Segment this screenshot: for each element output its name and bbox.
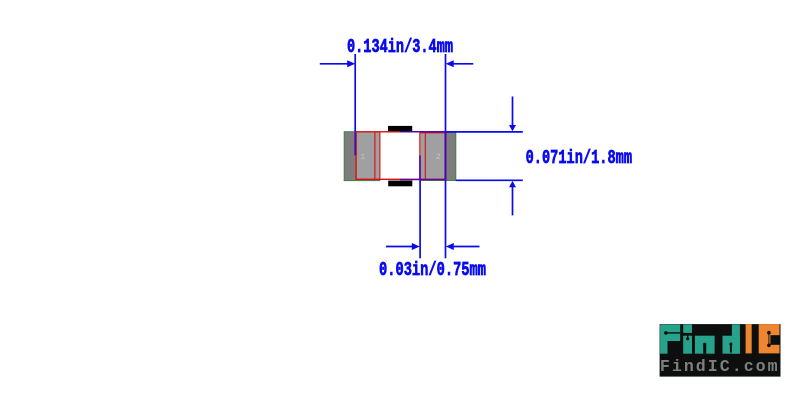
- polarity bar bottom (black): [388, 181, 412, 187]
- pad 2 inner paste area: [420, 132, 446, 180]
- pad 2 mask outline top edge (green): [446, 131, 456, 133]
- bottom dimension arrow right head: [446, 243, 454, 250]
- logo letter i (teal): [683, 325, 692, 333]
- logo letter F (teal): [660, 325, 680, 342]
- pad 2 mask outline bottom edge (green): [419, 180, 456, 182]
- component body outline (red): [356, 132, 445, 180]
- right dimension down arrow head: [509, 125, 516, 131]
- logo black box: [660, 324, 781, 377]
- pad 1 mask outline top edge (green): [344, 131, 356, 133]
- right dimension up arrow head: [509, 181, 516, 187]
- body outline right half bottom edge (purple): [400, 179, 446, 181]
- body outline right half top edge (purple): [400, 131, 446, 133]
- right dimension up arrow tail: [512, 187, 514, 216]
- bottom dimension left extension line (blue vertical): [419, 156, 421, 181]
- top dimension arrow right head: [446, 60, 454, 67]
- pad 2 mask outline right edge (green): [455, 132, 457, 181]
- pad 1: [344, 132, 380, 181]
- logo letter n (teal): [695, 336, 715, 354]
- polarity bar top (black): [388, 126, 412, 131]
- pad 1 inner edge line (red): [374, 132, 376, 180]
- right dimension top extension line: [446, 131, 523, 133]
- logo letter C (orange): [759, 324, 780, 353]
- right dimension bottom extension line: [456, 179, 523, 181]
- dimension extension line right below body (blue): [445, 180, 447, 258]
- svg-text:2: 2: [436, 153, 441, 162]
- pad 1 outer edge line (red): [379, 132, 381, 180]
- body outline right edge (purple): [445, 132, 447, 181]
- svg-text:1: 1: [360, 153, 365, 162]
- svg-text:0.071in/1.8mm: 0.071in/1.8mm: [526, 148, 632, 170]
- right dimension down arrow tail: [512, 97, 514, 127]
- pad 2 top edge line (red): [420, 132, 445, 134]
- top dimension arrow right tail: [448, 63, 474, 65]
- bottom dimension arrow left tail: [386, 246, 413, 248]
- pad 1 mask outline bottom edge (green): [344, 180, 380, 182]
- bottom dimension arrow right tail: [452, 246, 479, 248]
- pad 1 mask outline left edge (green): [343, 131, 345, 181]
- dimension extension line left (blue vertical): [354, 54, 356, 131]
- dimension extension line right (blue vertical, full): [445, 54, 447, 131]
- dimension extension line right through body (blue-purple blend): [445, 131, 447, 180]
- dimension extension line left lower part over body edge (purple blend): [354, 131, 356, 155]
- logo letter d (teal): [723, 336, 740, 354]
- bottom dimension left extension line lower part (blue): [419, 180, 421, 258]
- top dimension arrow left tail: [320, 63, 349, 65]
- bottom dimension arrow left head: [412, 243, 420, 250]
- logo letter I (orange): [746, 324, 752, 353]
- pad 2 inner edge line (red): [419, 133, 421, 180]
- top dimension arrow left head: [347, 60, 355, 67]
- pad 1 inner paste area: [356, 132, 380, 180]
- svg-text:FindIC.com: FindIC.com: [660, 357, 778, 376]
- pad 2 paste edge line (red): [424, 133, 426, 180]
- svg-text:0.134in/3.4mm: 0.134in/3.4mm: [347, 37, 453, 59]
- pad 2: [420, 132, 456, 181]
- svg-text:0.03in/0.75mm: 0.03in/0.75mm: [379, 260, 486, 282]
